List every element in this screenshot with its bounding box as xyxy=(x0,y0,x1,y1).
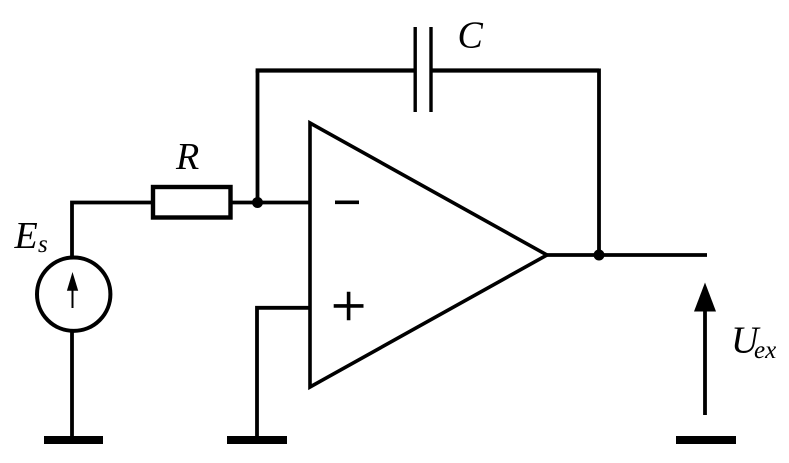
ground: under arrow xyxy=(676,436,736,444)
svg-text:C: C xyxy=(458,15,484,57)
ground: non-inverting input xyxy=(227,436,287,444)
wire: source top to resistor xyxy=(72,203,152,257)
svg-text:E: E xyxy=(14,215,38,257)
op-amp plus sign xyxy=(334,292,364,321)
ground: under current source xyxy=(44,436,103,444)
wire: node A up to feedback xyxy=(256,71,260,203)
wire: non-inverting input to ground xyxy=(257,308,310,436)
svg-text:R: R xyxy=(175,136,199,178)
wire: source bottom to ground xyxy=(70,331,74,436)
svg-text:s: s xyxy=(38,231,48,258)
wire: op-amp output xyxy=(547,253,707,257)
arrow U_ex xyxy=(694,283,716,416)
capacitor C xyxy=(415,27,431,112)
op-amp U1 triangle xyxy=(310,123,547,387)
resistor R xyxy=(153,187,231,218)
op-amp minus sign xyxy=(335,201,359,205)
svg-text:ex: ex xyxy=(754,337,776,364)
current source E_s xyxy=(37,258,110,331)
wire: resistor to inverting input xyxy=(231,201,310,205)
wire: feedback right vertical down to output node xyxy=(597,69,601,256)
wire: feedback top right segment xyxy=(431,68,599,72)
wire: feedback top left segment xyxy=(256,68,415,72)
node A: inverting input junction xyxy=(252,197,263,208)
node B: output junction xyxy=(594,250,605,261)
